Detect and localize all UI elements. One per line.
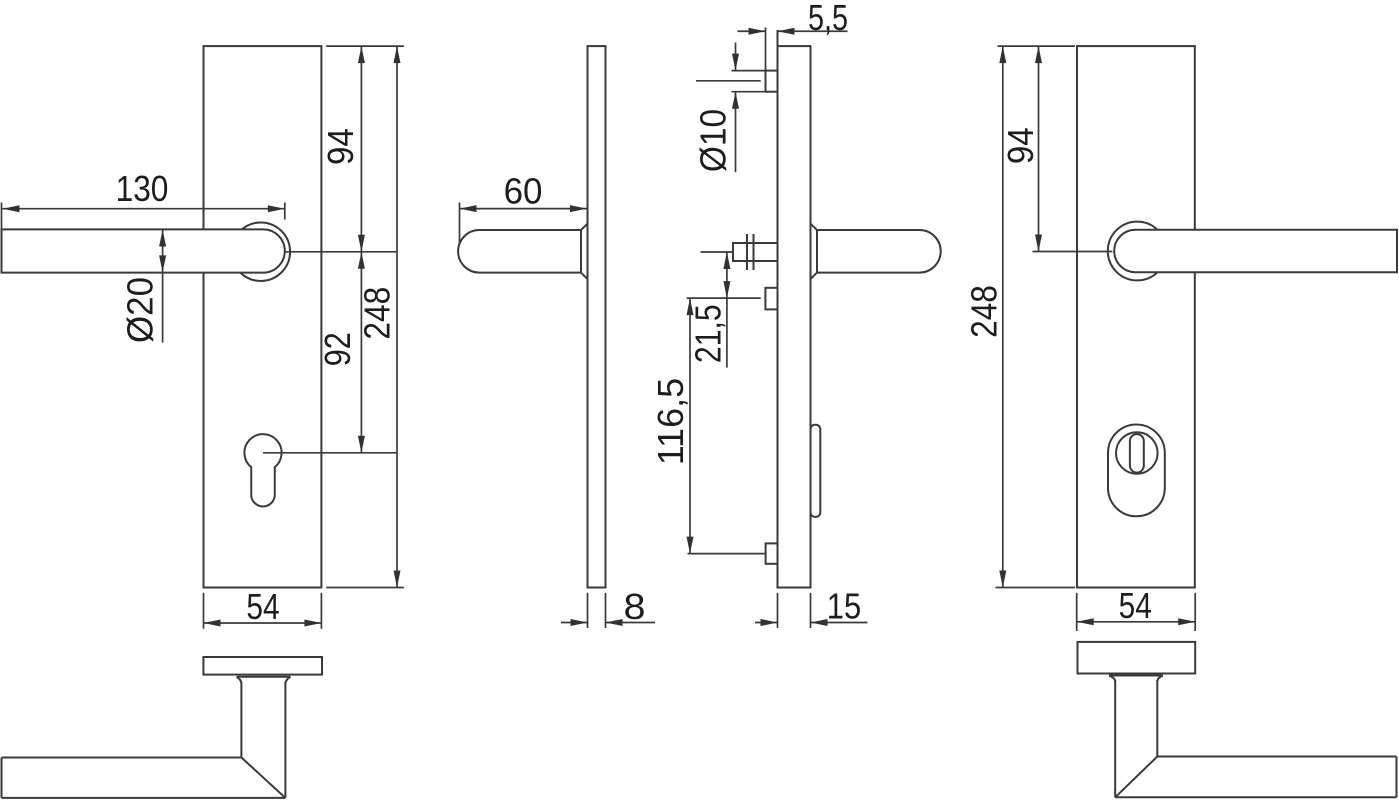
svg-text:248: 248 [965,285,1005,338]
svg-text:5,5: 5,5 [808,0,848,38]
svg-text:94: 94 [1002,127,1042,164]
svg-text:92: 92 [319,332,359,366]
svg-text:Ø20: Ø20 [120,277,161,343]
svg-text:130: 130 [116,169,169,209]
svg-text:60: 60 [504,171,543,212]
svg-text:21,5: 21,5 [689,304,729,363]
svg-text:Ø10: Ø10 [694,109,733,172]
svg-text:8: 8 [623,588,645,628]
svg-text:116,5: 116,5 [650,378,691,465]
svg-text:54: 54 [246,587,279,627]
svg-text:15: 15 [827,587,861,627]
svg-text:54: 54 [1119,587,1152,627]
svg-text:248: 248 [358,287,398,340]
svg-text:94: 94 [322,128,362,165]
